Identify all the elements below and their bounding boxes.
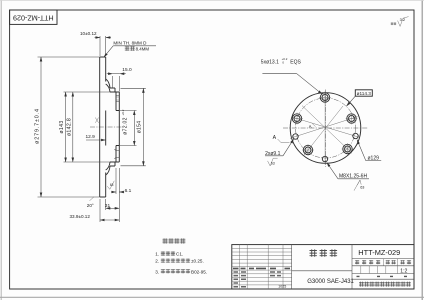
svg-text:B02-95.: B02-95. xyxy=(191,269,207,274)
svg-text:ø72.02: ø72.02 xyxy=(122,117,128,134)
centerline axis xyxy=(90,126,123,128)
dimension 6.1 xyxy=(111,168,132,194)
left zone verticals xyxy=(240,245,292,289)
section label A left xyxy=(273,135,290,143)
dimension 33.9±0.12 xyxy=(70,168,120,222)
sheet row 共张第张 xyxy=(352,276,414,279)
svg-text:63: 63 xyxy=(110,183,114,187)
left zone horizontals xyxy=(232,248,292,285)
svg-text:ø154: ø154 xyxy=(137,121,143,134)
svg-text:M8X1.25-6H: M8X1.25-6H xyxy=(339,173,367,179)
bolt circle xyxy=(296,98,356,158)
note 3 xyxy=(155,269,207,274)
svg-text:63: 63 xyxy=(271,162,275,166)
heading 技术要求 xyxy=(163,238,186,243)
bolt hole B2 upper-left xyxy=(291,113,303,125)
scale row with 1:2 xyxy=(352,266,414,275)
svg-text:ø114.3: ø114.3 xyxy=(357,91,372,96)
roughness check at flange bottom xyxy=(107,181,114,190)
svg-text:ø279.7±0.4: ø279.7±0.4 xyxy=(35,108,41,144)
svg-text:EQS: EQS xyxy=(290,60,301,66)
M8 tapped hole (section, top flange) xyxy=(116,95,119,101)
bolt hole B1 top xyxy=(319,92,331,104)
label 2x dia9.1 with roughness xyxy=(265,139,294,166)
mounting flange faces xyxy=(116,92,119,162)
note 2 xyxy=(155,259,203,264)
hat top wall xyxy=(106,79,120,92)
note 1 xyxy=(155,251,183,256)
small hole S2 bottom xyxy=(322,156,327,161)
note MIN TH. 8MM leader xyxy=(104,41,156,58)
svg-text:HTT-MZ-029: HTT-MZ-029 xyxy=(13,13,54,22)
dimension 10±0.12 xyxy=(80,31,111,56)
svg-text:8.4MM: 8.4MM xyxy=(136,47,150,52)
section label A center xyxy=(309,124,316,130)
dimension dia154 xyxy=(121,88,146,166)
svg-text:G3000 SAE-J431: G3000 SAE-J431 xyxy=(307,279,354,285)
svg-text:A: A xyxy=(273,135,277,141)
chamfer 20 deg note xyxy=(87,197,94,208)
label dia129 xyxy=(357,140,381,162)
svg-text:2.: 2. xyxy=(155,259,159,264)
svg-text:5xø13.1: 5xø13.1 xyxy=(261,60,279,66)
svg-text:C1.: C1. xyxy=(176,252,183,257)
svg-text:31: 31 xyxy=(105,203,111,209)
vertical centerline xyxy=(325,90,327,168)
part name cell 刹车盘 xyxy=(292,245,352,289)
outer circle xyxy=(290,93,361,164)
svg-text:63: 63 xyxy=(360,186,364,190)
svg-text:ø143: ø143 xyxy=(59,120,65,133)
svg-text:MIN TH. 8MM D: MIN TH. 8MM D xyxy=(113,41,147,46)
company name row xyxy=(359,282,411,287)
svg-text:1.: 1. xyxy=(155,252,159,257)
svg-text:+0.2: +0.2 xyxy=(121,109,125,115)
dimension dia143 / dia142.8 xyxy=(59,92,110,162)
drawing number cell HTT-MZ-029 xyxy=(352,248,414,258)
label 5x dia13.1 EQS xyxy=(261,57,323,94)
horizontal centerline xyxy=(283,127,369,129)
dimension 15.0 xyxy=(107,67,132,92)
svg-text:±0.25.: ±0.25. xyxy=(191,259,204,264)
bolt hole (section, bottom flange) xyxy=(114,149,119,159)
small hole S1 left xyxy=(293,134,298,139)
top-left part-number box xyxy=(10,10,57,24)
svg-text:1:2: 1:2 xyxy=(400,269,407,275)
svg-text:2xø9.1: 2xø9.1 xyxy=(265,151,281,157)
svg-text:12.9: 12.9 xyxy=(86,134,96,140)
dimension 12.9 xyxy=(86,134,106,140)
svg-text:3.: 3. xyxy=(155,269,159,274)
dimension dia72.02 xyxy=(120,109,137,145)
svg-text:10±0.12: 10±0.12 xyxy=(80,31,97,36)
title block outer xyxy=(232,245,414,289)
center bore xyxy=(116,111,119,146)
bolt hole B4 lower-right xyxy=(342,143,354,155)
svg-text:A: A xyxy=(309,124,312,129)
dimension 31 xyxy=(105,199,120,210)
bolt hole B5 upper-right xyxy=(346,113,358,125)
small hole S3 right xyxy=(353,133,358,138)
svg-text:33.9±0.12: 33.9±0.12 xyxy=(70,214,91,219)
label dia114.3 boxed xyxy=(346,90,372,106)
left zone tiny row texts xyxy=(233,268,290,288)
top-right general roughness symbol xyxy=(391,17,409,27)
hat bottom wall xyxy=(106,162,120,175)
svg-text:6.1: 6.1 xyxy=(125,188,132,194)
svg-text:ø142.8: ø142.8 xyxy=(67,118,73,136)
svg-text:15.0: 15.0 xyxy=(122,67,132,73)
bolt hole B3 lower-left xyxy=(302,144,314,156)
label M8X1.25-6H with roughness xyxy=(327,163,369,191)
disc plate outline xyxy=(100,57,106,197)
hole rays xyxy=(290,92,359,165)
svg-text:1025: 1025 xyxy=(278,285,286,289)
dimension dia279.7 xyxy=(35,57,100,197)
header row 图样标记/重量/比例 xyxy=(352,259,414,274)
surface mark x on plate face xyxy=(95,118,98,123)
svg-text:HTT-MZ-029: HTT-MZ-029 xyxy=(358,248,400,257)
svg-text:20°: 20° xyxy=(87,203,94,208)
